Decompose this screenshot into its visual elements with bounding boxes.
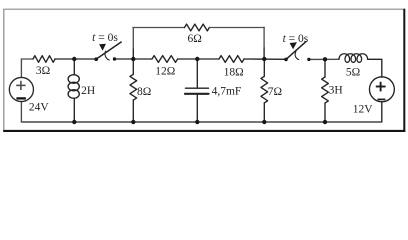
switch S2 pivot dot <box>284 58 288 62</box>
inductor L 5ohm coil <box>339 54 368 63</box>
wire: 18-ohm to switch2 pivot through node D <box>244 58 286 60</box>
svg-text:3H: 3H <box>329 85 343 97</box>
wire: top rail from 24V source to 3-ohm <box>21 58 33 60</box>
wire: coil to right corner, down to 12V source <box>368 59 382 77</box>
svg-text:6Ω: 6Ω <box>187 33 201 45</box>
capacitor C 4.7mF top plate <box>186 87 209 89</box>
wire: 3-ohm to switch1 pivot (through node A) <box>55 58 96 60</box>
svg-text:7Ω: 7Ω <box>268 86 282 98</box>
wire: capacitor branch bottom stub <box>196 94 198 122</box>
switch S2 arc <box>295 52 299 60</box>
wire: 24V source bottom lead <box>20 102 22 122</box>
wire: switch S1 right contact to node B <box>114 58 152 60</box>
resistor R 12ohm zigzag <box>152 56 178 63</box>
svg-text:5Ω: 5Ω <box>346 66 360 78</box>
voltage source V1 plus sign <box>16 81 25 90</box>
resistor R 8ohm vertical zigzag <box>130 74 137 100</box>
wire: 6-ohm upper branch left vertical <box>132 48 134 59</box>
svg-text:8Ω: 8Ω <box>137 86 151 98</box>
wire: 24V source top lead <box>20 59 22 78</box>
bottom node dot 8ohm <box>131 120 135 124</box>
wire: 7ohm branch top stub <box>263 59 265 76</box>
svg-text:4,7mF: 4,7mF <box>212 86 242 98</box>
bottom node dot 3H <box>323 120 327 124</box>
bottom node dot 2H <box>72 120 76 124</box>
switch S1 pivot dot <box>94 57 98 61</box>
svg-text:12Ω: 12Ω <box>155 65 175 77</box>
switch S1 arrowhead <box>99 44 106 51</box>
node C junction dot <box>195 57 199 61</box>
switch S2 contact dot <box>307 58 310 61</box>
wire: switch S2 right contact to node E and to coil <box>309 58 339 60</box>
wire: 3H branch top stub <box>324 59 326 77</box>
svg-text:24V: 24V <box>29 101 50 113</box>
border frame bottom <box>3 130 405 132</box>
node A junction dot <box>72 57 76 61</box>
inductor L 2H loops <box>68 75 79 84</box>
wire: upper rail right segment <box>209 27 264 29</box>
wire: 2H branch top stub <box>73 59 75 75</box>
wire: 12-ohm to 18-ohm through node C <box>178 58 219 60</box>
wire: 6-ohm upper branch right vertical <box>263 27 265 48</box>
switch S2 blade <box>286 42 306 60</box>
voltage source V2 12V circle <box>369 77 394 102</box>
capacitor C 4.7mF bottom plate <box>185 93 209 95</box>
wire: 8ohm branch top stub <box>132 59 134 74</box>
wire: capacitor branch top stub <box>196 59 198 88</box>
bottom node dot capacitor <box>195 120 199 124</box>
svg-text:18Ω: 18Ω <box>224 67 244 79</box>
resistor R 7ohm vertical zigzag <box>261 76 268 103</box>
voltage source V2 plus sign <box>376 82 386 92</box>
node D junction dot <box>262 57 266 61</box>
switch S2 arrowhead <box>290 42 297 49</box>
border frame left <box>3 9 5 131</box>
wire: bottom rail <box>21 121 381 123</box>
resistor R 18ohm zigzag <box>219 56 244 63</box>
svg-text:3Ω: 3Ω <box>36 65 50 77</box>
wire: 8ohm branch bottom stub <box>132 100 134 122</box>
wire: below 12V source to bottom rail <box>381 102 383 122</box>
wire: 3H branch bottom stub <box>324 103 326 122</box>
switch S1 blade <box>96 42 121 59</box>
border frame right <box>403 9 405 132</box>
node B junction dot <box>131 57 135 61</box>
switch S1 arc <box>105 51 109 60</box>
wire: 7ohm branch bottom stub <box>263 103 265 122</box>
switch S1 contact dot <box>113 57 116 60</box>
bottom node dot 7ohm <box>262 120 266 124</box>
resistor-style inductor 3H vertical zigzag <box>322 77 329 103</box>
svg-text:12V: 12V <box>353 103 374 115</box>
voltage source V1 24V circle <box>9 77 33 101</box>
node E junction dot <box>323 57 327 61</box>
resistor R 6ohm zigzag <box>185 24 210 31</box>
wire: upper rail left segment <box>133 27 185 29</box>
wire: 2H branch bottom stub <box>73 98 75 122</box>
voltage source V1 minus sign <box>16 97 26 99</box>
svg-text:t = 0s: t = 0s <box>92 32 118 44</box>
voltage source V2 minus sign <box>378 98 386 100</box>
svg-text:2H: 2H <box>81 85 95 97</box>
svg-text:t = 0s: t = 0s <box>283 33 309 45</box>
border frame top <box>3 8 405 10</box>
resistor R 3ohm zigzag <box>33 56 55 63</box>
